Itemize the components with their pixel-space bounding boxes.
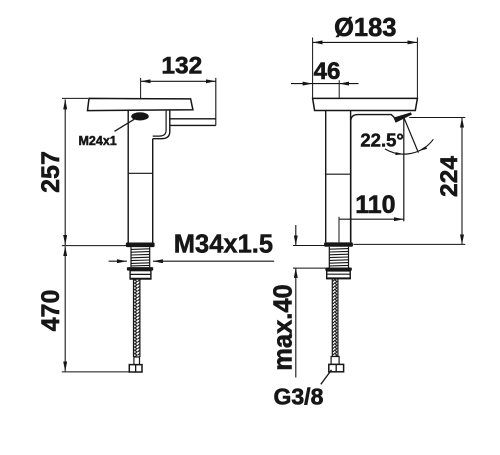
svg-text:470: 470 [37,290,65,332]
thread lines [131,249,150,266]
column joint line [326,173,351,175]
body right outer edge with step [153,111,170,139]
connector mid line front [335,364,337,371]
top plate (front view) [313,98,418,110]
svg-text:132: 132 [161,53,202,80]
dim 257 line [64,99,66,245]
body left edge [127,111,129,243]
hose end tube front [331,357,339,365]
connector mid line [135,365,137,372]
22.5 deg slant line [404,117,419,152]
handle pivot vertical reference [403,117,405,221]
svg-text:Ø183: Ø183 [334,14,396,42]
svg-text:224: 224 [436,156,463,197]
handle disc (front view) [351,115,396,243]
dim 46 middle segment [313,83,340,85]
column left edge [325,111,327,243]
svg-text:22.5°: 22.5° [360,129,403,150]
svg-text:M34x1.5: M34x1.5 [174,230,273,258]
dim 224 line [461,118,463,245]
ext D183 left [312,38,314,99]
svg-text:110: 110 [355,191,395,219]
ext D183 right [416,38,418,99]
body right inner edge [153,111,166,137]
hose braid front [332,278,338,356]
hose connector nut [129,365,142,372]
svg-text:max.40: max.40 [270,284,298,371]
locknut bottom edge front [326,277,351,279]
ext line mounting surface [62,245,126,247]
arc arrow at vertical [395,152,404,155]
ext line spout top [62,97,88,99]
dim 470 line [64,246,66,371]
svg-text:M24x1: M24x1 [79,134,117,148]
leader line M24x1 [115,118,138,132]
arc arrow at slant [418,146,427,151]
column right edge [350,111,352,243]
ext max40 bottom [293,267,325,269]
dim 46 right arrow [339,83,358,85]
ext 46 axis [338,80,340,98]
dim 46 left arrow [291,83,313,85]
locknut dark band [127,267,153,271]
ext line hose end [62,371,131,373]
ext 224 top [409,117,465,119]
ext max40 top [293,245,324,247]
svg-text:46: 46 [314,58,341,85]
M34x1.5 leader with arrow [153,260,274,262]
threaded shank sides [130,247,132,267]
angle arc [385,139,433,154]
aerator M24x1 outlet [131,112,149,120]
dim max.40 upper arrow [295,225,297,245]
column joint line [128,172,153,174]
hose end tube [134,357,140,365]
ext 224 bottom [353,243,465,245]
hose connector front [329,364,344,371]
locknut dark band front [325,268,352,271]
locknut inner line [130,273,151,275]
locknut inner line front [327,273,351,275]
flexible hose braid [134,280,140,358]
mounting flange front [324,242,353,246]
svg-text:G3/8: G3/8 [274,383,324,409]
handle lever tip (tilted, solid) [394,112,412,122]
hose edges [133,280,135,358]
M34x1.5 left arrow [109,260,127,262]
locknut body [130,271,151,279]
ext line 132 left [140,78,142,98]
hose edges front [331,278,333,356]
faucet axis ext line [338,217,340,243]
column right edge [152,139,154,243]
handle lever (side view) top [170,118,216,120]
locknut body front [327,271,351,279]
dim max.40 lower line [295,268,297,378]
dim 132 line [141,80,216,82]
mounting flange [126,243,155,248]
svg-text:257: 257 [37,151,65,193]
G3/8 leader [321,370,332,384]
threaded shank sides front [328,247,330,268]
handle lever bottom [170,124,216,126]
dim D183 line [313,41,418,43]
locknut bottom edge [130,278,152,280]
thread lines front [329,249,348,266]
ext line 132 right / handle end [215,78,217,126]
dim 110 line [339,218,404,220]
spout plate (side view) [88,98,193,110]
